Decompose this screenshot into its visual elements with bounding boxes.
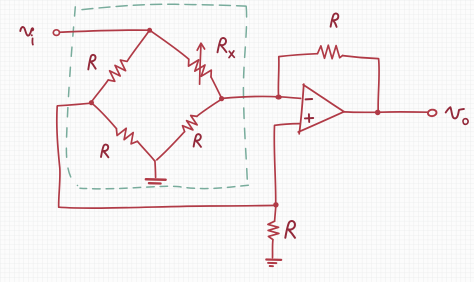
label R (lower-left) xyxy=(101,145,108,158)
junction dot node A (inverting input / feedback) xyxy=(275,95,281,100)
bottom rail wire (horizontal) xyxy=(59,205,275,208)
dashed box around bridge (right edge) xyxy=(243,7,247,189)
wire: bridge right node to inverting input (node A) xyxy=(223,96,301,98)
label R (feedback) xyxy=(331,13,339,26)
feedback wire from resistor to right drop xyxy=(343,56,379,59)
dashed box around bridge (left edge) xyxy=(66,7,77,186)
resistor R lower-left arm xyxy=(116,128,137,144)
resistor Rx (adjustable) upper-right arm xyxy=(189,59,212,77)
op-amp minus sign (inverting input) xyxy=(306,98,313,100)
dashed box around bridge (bottom edge) xyxy=(80,185,248,189)
wire: left node to resistor R (lower-left arm) xyxy=(92,103,116,128)
wire: non-inverting input down to bottom node xyxy=(274,126,275,204)
output terminal (open circle) node v_o xyxy=(427,109,436,117)
feedback top wire to resistor R xyxy=(279,54,318,57)
ground symbol (bottom) xyxy=(266,260,281,267)
label v_o xyxy=(446,107,468,124)
label R (bottom) xyxy=(285,221,295,238)
wire: resistor R to bridge bottom node xyxy=(137,141,154,161)
bottom junction node dot xyxy=(273,202,278,207)
output node dot xyxy=(375,110,381,116)
wire: top node to resistor Rx (upper-right arm) xyxy=(150,31,189,60)
feedback resistor R xyxy=(318,45,343,59)
feedback wire up from node A xyxy=(277,57,280,95)
ground symbol under bridge xyxy=(146,179,166,183)
wire: right node to resistor R (lower-right arm) xyxy=(197,99,221,116)
wire: non-inverting input horizontal xyxy=(275,124,300,126)
wire: output node to output terminal xyxy=(381,111,428,113)
dashed box around bridge (top edge) xyxy=(82,4,246,9)
op-amp plus sign (non-inverting input) xyxy=(305,114,313,122)
wire: resistor R to ground xyxy=(272,240,274,258)
op-amp U1 triangle xyxy=(298,84,344,134)
left rail wire (vertical) xyxy=(57,106,60,206)
bridge top node (junction dot) xyxy=(147,28,152,33)
feedback right drop wire xyxy=(378,59,379,110)
wire: top node to resistor R (upper-left arm) xyxy=(127,31,149,61)
resistor R upper-left arm xyxy=(108,60,127,81)
wire: resistor R to bridge left node xyxy=(92,80,108,101)
bridge left node (junction dot) xyxy=(89,100,94,105)
wire: bridge left node to left rail xyxy=(57,103,90,106)
bridge bottom node stub wire to ground xyxy=(154,161,157,178)
label R_x xyxy=(218,38,235,58)
bridge right node (junction dot) xyxy=(219,96,224,101)
input terminal (open circle) node v_i xyxy=(53,30,59,36)
arrow through Rx (adjustable symbol) xyxy=(197,43,204,84)
wire: bottom node down to resistor R xyxy=(275,207,276,222)
label R (lower-right) xyxy=(194,134,201,147)
label R (upper-left) xyxy=(88,55,95,70)
resistor R (bottom, to ground) xyxy=(268,221,279,239)
wire: op-amp output to output node xyxy=(344,111,375,113)
label v_i xyxy=(20,27,33,45)
wire from input terminal to bridge top node xyxy=(60,30,148,32)
wire: resistor R to bridge bottom node xyxy=(157,132,185,160)
resistor R lower-right arm xyxy=(183,116,198,132)
wire: resistor Rx to bridge right node xyxy=(211,77,221,97)
